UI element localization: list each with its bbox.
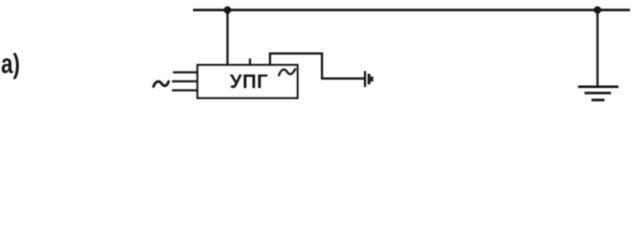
svg-text:a): a) [1, 48, 20, 80]
svg-text:УПГ: УПГ [230, 71, 268, 93]
